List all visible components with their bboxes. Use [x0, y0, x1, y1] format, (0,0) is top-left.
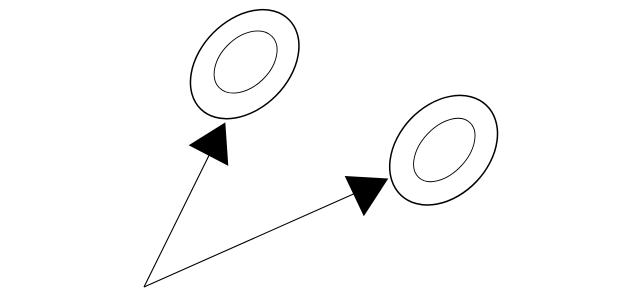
wire arrow 2 shaft — [144, 193, 356, 287]
ring 1 outer ellipse — [169, 0, 320, 140]
ring 2 inner ellipse — [402, 107, 487, 193]
arrowhead 1 — [189, 122, 229, 165]
ring 2 outer ellipse — [368, 74, 519, 226]
ring 1 inner ellipse — [202, 19, 289, 105]
wire arrow 1 shaft — [144, 153, 210, 287]
arrowhead 2 — [345, 176, 389, 216]
